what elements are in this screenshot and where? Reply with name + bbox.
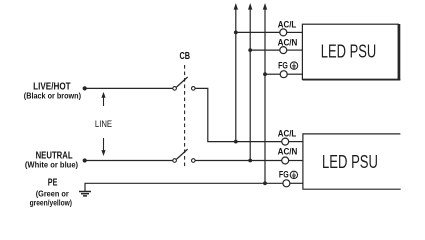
node junction bus N / top AC/N bbox=[248, 48, 252, 52]
wire NEUTRAL from source dot to breaker bbox=[85, 160, 173, 162]
terminal top AC/N bbox=[278, 38, 303, 54]
svg-text:AC/N: AC/N bbox=[278, 147, 298, 158]
svg-text:AC/L: AC/L bbox=[278, 128, 297, 139]
PSU box U2 (bottom, open right side) bbox=[303, 134, 401, 189]
svg-text:(Black or brown): (Black or brown) bbox=[24, 91, 82, 100]
svg-text:FG: FG bbox=[278, 61, 288, 72]
svg-text:CB: CB bbox=[180, 51, 191, 62]
svg-text:LED PSU: LED PSU bbox=[322, 151, 378, 172]
wire live after breaker: right, down, right to bottom PSU AC/L bbox=[195, 88, 282, 141]
terminal top AC/L bbox=[278, 19, 303, 36]
svg-text:LED PSU: LED PSU bbox=[321, 40, 376, 61]
terminal bottom AC/N bbox=[278, 147, 303, 164]
wire top PSU FG bbox=[265, 73, 280, 75]
wire neutral after breaker to bottom PSU AC/N bbox=[195, 160, 282, 162]
svg-text:LINE: LINE bbox=[95, 119, 112, 129]
svg-text:AC/L: AC/L bbox=[278, 19, 297, 30]
breaker CB pole 2 (neutral) bbox=[173, 149, 195, 162]
wire PE horizontal bbox=[85, 183, 283, 191]
breaker CB pole 1 (live) bbox=[173, 77, 195, 90]
bus N vertical with arrow bbox=[248, 3, 252, 161]
wire LIVE from source dot to breaker bbox=[85, 87, 173, 89]
svg-text:green/yellow): green/yellow) bbox=[30, 198, 73, 207]
terminal bottom AC/L bbox=[278, 128, 303, 145]
wire top PSU AC/N bbox=[250, 49, 280, 51]
svg-text:PE: PE bbox=[48, 178, 58, 189]
node NEUTRAL source dot bbox=[83, 158, 87, 162]
wire top PSU AC/L bbox=[236, 31, 280, 33]
node junction bus L / bottom AC/L bbox=[234, 140, 238, 144]
node junction bus L / top AC/L bbox=[234, 31, 238, 35]
PSU box U1 (top) bbox=[302, 24, 400, 80]
label LIVE/HOT bbox=[24, 82, 82, 101]
ground PE earth symbol bbox=[79, 192, 91, 196]
svg-text:(White or blue): (White or blue) bbox=[25, 160, 79, 169]
breaker CB linkage dashed line bbox=[184, 65, 186, 167]
svg-text:AC/N: AC/N bbox=[278, 38, 298, 49]
node LIVE source dot bbox=[83, 86, 87, 90]
node junction bus PE / bottom FG bbox=[263, 181, 267, 185]
bus L vertical with arrow bbox=[234, 3, 238, 142]
bus PE vertical with arrow bbox=[263, 3, 267, 183]
terminal top FG with earth mark bbox=[278, 61, 302, 78]
node junction bus N / bottom AC/N bbox=[248, 159, 252, 163]
LINE arrow down bbox=[101, 138, 105, 156]
node junction bus PE / top FG bbox=[263, 72, 267, 76]
svg-text:(Green or: (Green or bbox=[36, 189, 69, 198]
label PE bbox=[30, 178, 73, 208]
LINE arrow up bbox=[101, 92, 105, 106]
svg-text:FG: FG bbox=[279, 170, 289, 181]
terminal bottom FG with earth mark bbox=[279, 170, 303, 187]
label NEUTRAL bbox=[25, 150, 79, 169]
